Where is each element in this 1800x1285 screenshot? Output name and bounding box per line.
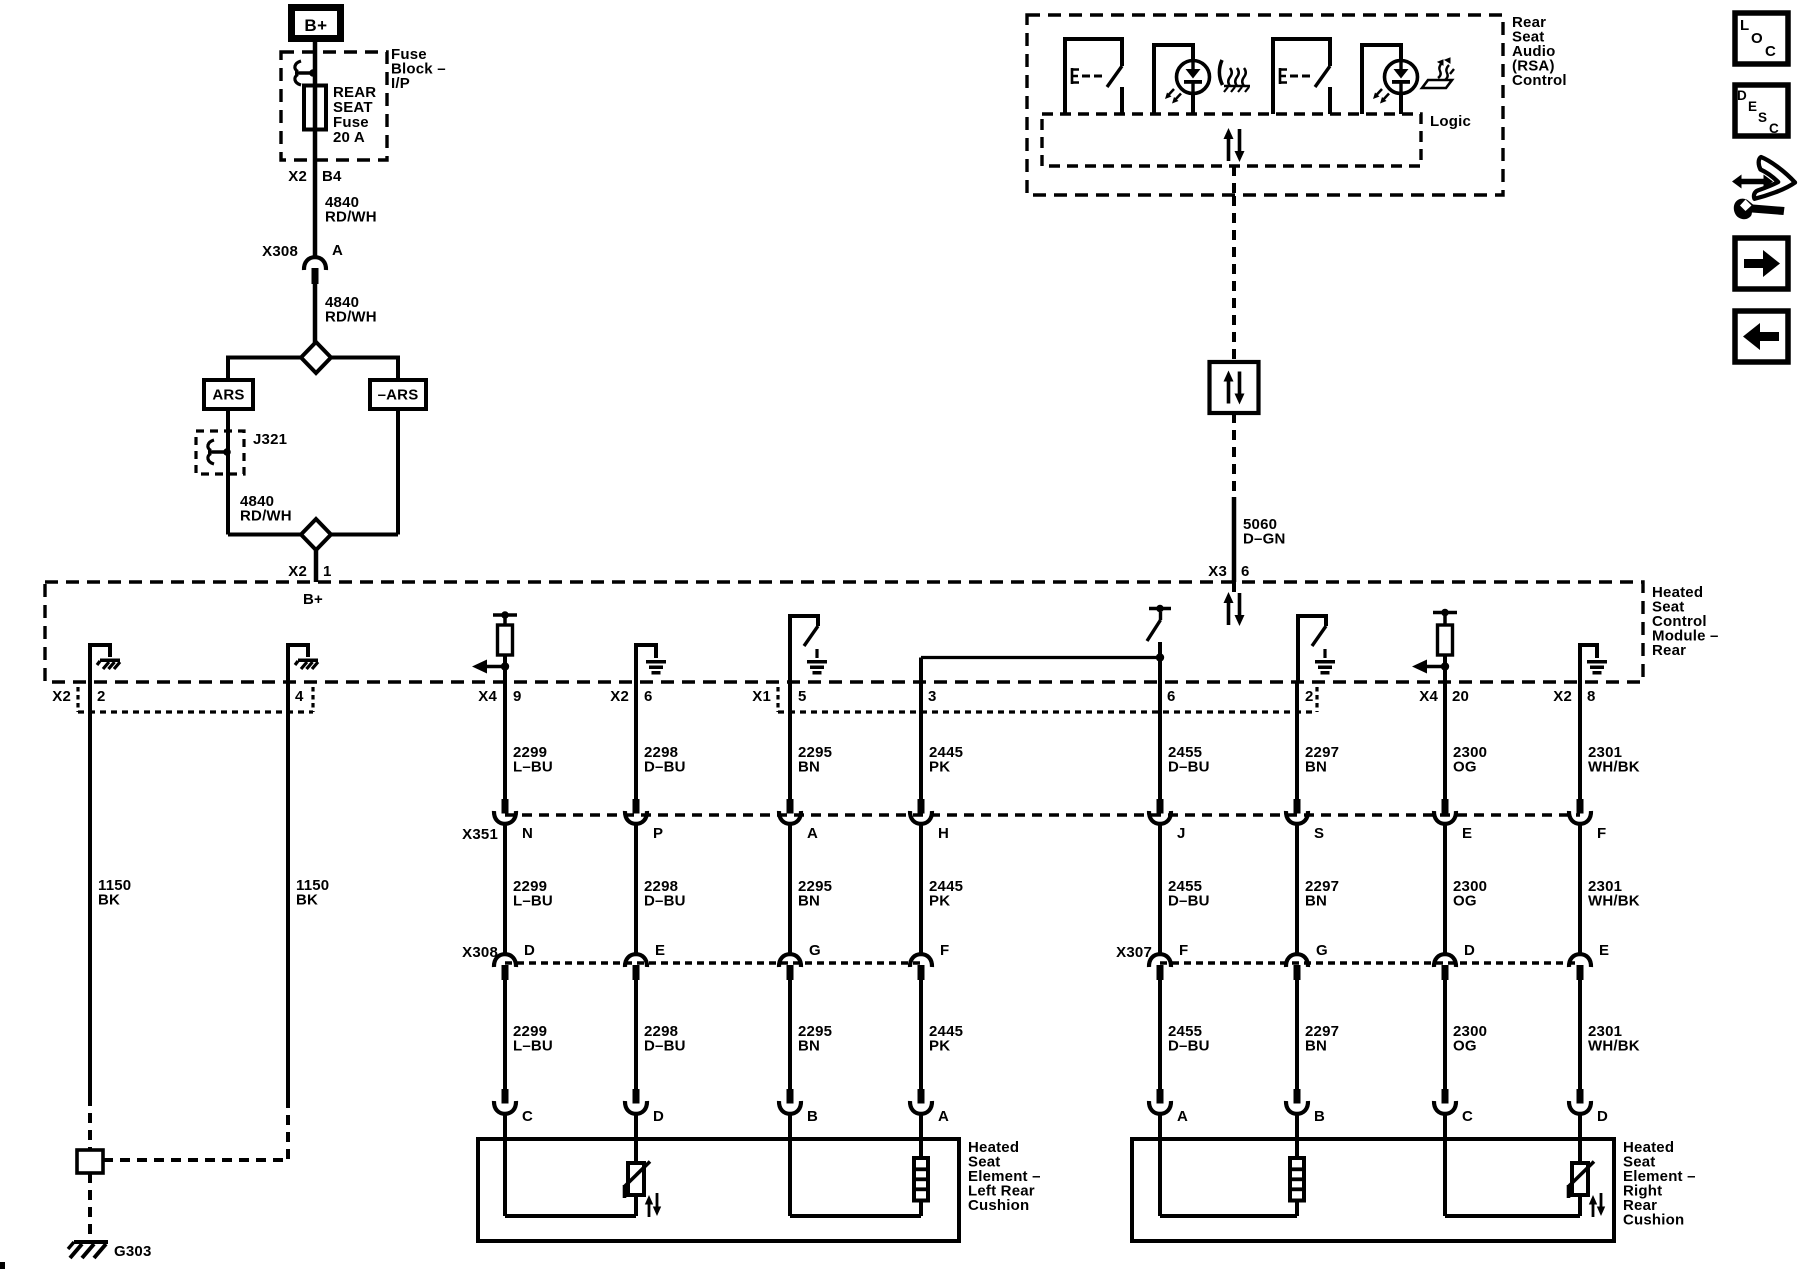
svg-text:D–BU: D–BU (1168, 1038, 1210, 1055)
svg-text:L–BU: L–BU (513, 1038, 553, 1055)
svg-text:X2: X2 (288, 563, 307, 580)
module switch at pin 6 (1156, 653, 1164, 661)
wire: B+ to fuse (313, 42, 318, 87)
svg-text:C: C (522, 1108, 533, 1125)
svg-text:RD/WH: RD/WH (240, 508, 292, 525)
svg-text:ARS: ARS (212, 387, 244, 404)
svg-text:BN: BN (1305, 1038, 1327, 1055)
wire 2297 BN module to X351 (right cushion ctl) (1295, 682, 1299, 801)
dashed data wire to module (1232, 413, 1236, 497)
svg-text:PK: PK (929, 1038, 950, 1055)
module ground output pin X2-4 (288, 645, 308, 682)
wire 2301 WH/BK to seat element (1578, 980, 1582, 1091)
svg-text:X307: X307 (1116, 944, 1152, 961)
svg-text:X308: X308 (262, 243, 298, 260)
module serial data up/down arrows at X3-6 (1232, 582, 1236, 592)
seat element connector pin A (910, 1089, 932, 1114)
splice J321 dashed box (196, 431, 244, 474)
svg-text:4: 4 (295, 688, 304, 705)
svg-text:L–BU: L–BU (513, 893, 553, 910)
svg-text:E: E (1599, 942, 1609, 959)
right cushion thermistor (1569, 1162, 1606, 1218)
svg-text:D: D (1737, 88, 1747, 103)
svg-text:J321: J321 (253, 431, 287, 448)
left cushion thermistor (625, 1162, 662, 1218)
J321 splice clip (208, 440, 231, 464)
svg-text:E: E (1748, 99, 1757, 114)
svg-text:X2: X2 (610, 688, 629, 705)
svg-text:D–BU: D–BU (644, 893, 686, 910)
wire into element box (503, 1115, 507, 1141)
svg-text:6: 6 (1241, 563, 1250, 580)
Rear Seat Audio (RSA) Control dashed box (1027, 15, 1503, 195)
connector X351 pin A (779, 799, 801, 824)
svg-text:D–BU: D–BU (644, 759, 686, 776)
svg-text:F: F (1179, 942, 1188, 959)
svg-text:X2: X2 (1553, 688, 1572, 705)
RSA logic up/down arrows (1224, 128, 1245, 162)
svg-text:OG: OG (1453, 893, 1477, 910)
wire into element box (634, 1115, 638, 1141)
wire 2299 L&#8211;BU to seat element (503, 980, 507, 1091)
svg-text:C: C (1765, 43, 1776, 60)
svg-text:BK: BK (98, 892, 120, 909)
wire 2297 BN to seat element (1295, 980, 1299, 1091)
wire: to module pin X2-1 (314, 550, 319, 582)
fuse REAR SEAT 20A (304, 86, 326, 130)
svg-text:H: H (938, 825, 949, 842)
svg-text:2: 2 (97, 688, 106, 705)
svg-text:D: D (653, 1108, 664, 1125)
svg-text:BN: BN (798, 759, 820, 776)
wire 2300 OG X351 to X308/X307 (1443, 825, 1447, 953)
svg-text:Rear: Rear (1652, 642, 1686, 659)
svg-text:OG: OG (1453, 759, 1477, 776)
module driver resistor at X4-20 (1433, 611, 1457, 615)
svg-text:A: A (938, 1108, 949, 1125)
page edge artifact (0, 1262, 5, 1269)
ground wire 1150 BK (pin 2) (88, 682, 92, 1096)
svg-text:N: N (522, 825, 533, 842)
wire 2295 BN X351 to X308/X307 (788, 825, 792, 953)
wire 2301 WH/BK X351 to X308/X307 (1578, 825, 1582, 953)
module switch with ground at pin 2 (1298, 616, 1326, 682)
wire 2298 D&#8211;BU X351 to X308/X307 (634, 825, 638, 953)
Heated Seat Control Module - Rear dashed box (45, 582, 1643, 682)
wire: bottom branch to diamond (228, 533, 301, 537)
cooled seat icon (1422, 58, 1454, 88)
svg-text:5: 5 (798, 688, 807, 705)
splice diamond S1 (301, 342, 331, 373)
svg-text:6: 6 (644, 688, 653, 705)
ground wire 1150 BK (pin 4) (286, 682, 290, 1098)
svg-text:PK: PK (929, 759, 950, 776)
svg-text:S: S (1314, 825, 1324, 842)
right cushion heater element (1290, 1158, 1304, 1201)
svg-text:X4: X4 (1419, 688, 1438, 705)
icon wiring/repair (arrow and wrench) (1732, 157, 1795, 219)
svg-text:D–GN: D–GN (1243, 531, 1285, 548)
module low switch at X1-5 (790, 616, 818, 682)
wire into element box (1158, 1115, 1162, 1141)
wire 2301 WH/BK module to X351 (right cushion -) (1578, 682, 1582, 801)
connector X351 pin P (625, 799, 647, 824)
splice diamond S2 (301, 519, 331, 550)
svg-text:PK: PK (929, 893, 950, 910)
svg-text:Cushion: Cushion (1623, 1212, 1684, 1229)
svg-text:–ARS: –ARS (378, 387, 419, 404)
wire 5060 D-GN (1232, 497, 1237, 582)
seat element connector pin D (1569, 1089, 1591, 1114)
svg-text:BN: BN (798, 893, 820, 910)
wire 2295 BN to seat element (788, 980, 792, 1091)
svg-text:X3: X3 (1208, 563, 1227, 580)
module ground at X2-8 (1580, 645, 1597, 682)
svg-text:D–BU: D–BU (1168, 893, 1210, 910)
svg-text:20 A: 20 A (333, 129, 365, 146)
connector X1 bracket (778, 710, 1317, 713)
svg-text:Logic: Logic (1430, 113, 1471, 130)
wire into element box (1295, 1115, 1299, 1141)
module sense wire pin 3 (919, 658, 923, 683)
seat element connector pin A (1149, 1089, 1171, 1114)
svg-text:2: 2 (1305, 688, 1314, 705)
svg-text:G: G (809, 942, 821, 959)
wire: diamond to ARS (228, 356, 301, 360)
module ground output pin X2-2 (90, 645, 110, 682)
svg-text:G: G (1316, 942, 1328, 959)
wire into element box (1578, 1115, 1582, 1141)
connector X351 pin F (1569, 799, 1591, 824)
icon back arrow box (1735, 311, 1788, 362)
connector row X351 dashed line (505, 813, 1580, 817)
icon DESC box (1735, 85, 1788, 136)
svg-text:D–BU: D–BU (1168, 759, 1210, 776)
svg-text:E: E (1462, 825, 1472, 842)
connector X351 pin E (1434, 799, 1456, 824)
svg-text:X308: X308 (462, 944, 498, 961)
wire 2295 BN module to X351 (left cushion sense) (788, 682, 792, 801)
connector X351 pin J (1149, 799, 1171, 824)
svg-text:OG: OG (1453, 1038, 1477, 1055)
wire into element box (1443, 1115, 1447, 1141)
svg-text:S: S (1758, 110, 1767, 125)
svg-text:RD/WH: RD/WH (325, 309, 377, 326)
wire: ARS down (226, 409, 230, 535)
dashed data wire from RSA (1232, 166, 1236, 196)
svg-text:C: C (1462, 1108, 1473, 1125)
wire 2445 PK to seat element (919, 980, 923, 1091)
wire 2455 D&#8211;BU module to X351 (right cushion +) (1158, 682, 1162, 801)
svg-text:X4: X4 (478, 688, 497, 705)
wire 2298 D&#8211;BU to seat element (634, 980, 638, 1091)
wire 2298 D&#8211;BU module to X351 (left cushion ctl) (634, 682, 638, 801)
RSA switch SW1 (heat) (1065, 39, 1122, 114)
wire 2300 OG to seat element (1443, 980, 1447, 1091)
serial data symbol box (1210, 362, 1259, 413)
RSA switch SW2 (cool) (1273, 39, 1330, 114)
svg-text:B+: B+ (304, 16, 327, 35)
icon LOC box (1735, 13, 1788, 64)
RSA indicator LED1 (1154, 45, 1210, 114)
svg-text:A: A (1177, 1108, 1188, 1125)
Fuse Block - I/P dashed box (281, 52, 387, 160)
svg-text:C: C (1769, 121, 1779, 136)
svg-text:X2: X2 (288, 168, 307, 185)
wire to splice diamond (313, 283, 318, 344)
wire: diamond to -ARS (331, 356, 398, 360)
seat element connector pin B (779, 1089, 801, 1114)
svg-text:D: D (1597, 1108, 1608, 1125)
wire 2445 PK module to X351 (left cushion -) (919, 682, 923, 801)
svg-text:O: O (1751, 30, 1763, 47)
svg-text:20: 20 (1452, 688, 1469, 705)
svg-text:Cushion: Cushion (968, 1197, 1029, 1214)
svg-text:BN: BN (1305, 893, 1327, 910)
left element internal wires (503, 1141, 507, 1216)
connector X2 bracket (78, 710, 313, 713)
wire 2455 D&#8211;BU to seat element (1158, 980, 1162, 1091)
connector row X308 dashed line (505, 961, 921, 965)
svg-text:L: L (1740, 17, 1749, 34)
Heated Seat Element - Right Rear Cushion box (1132, 1139, 1614, 1241)
switch -ARS box (370, 380, 426, 409)
icon forward arrow box (1735, 238, 1788, 289)
seat element connector pin C (1434, 1089, 1456, 1114)
svg-text:B: B (807, 1108, 818, 1125)
wire 2445 PK X351 to X308/X307 (919, 825, 923, 953)
svg-text:8: 8 (1587, 688, 1596, 705)
connector X351 pin S (1286, 799, 1308, 824)
svg-text:A: A (807, 825, 818, 842)
svg-text:B4: B4 (322, 168, 342, 185)
svg-text:P: P (653, 825, 663, 842)
wire 2300 OG module to X351 (right cushion sense) (1443, 682, 1447, 801)
svg-text:6: 6 (1167, 688, 1176, 705)
wire 2297 BN X351 to X308/X307 (1295, 825, 1299, 953)
svg-text:BN: BN (798, 1038, 820, 1055)
left cushion heater element (914, 1158, 928, 1201)
ground G303 (68, 1242, 108, 1258)
Heated Seat Element - Left Rear Cushion box (478, 1139, 959, 1241)
svg-text:G303: G303 (114, 1243, 152, 1260)
seat element connector pin C (494, 1089, 516, 1114)
svg-text:WH/BK: WH/BK (1588, 759, 1640, 776)
svg-text:X1: X1 (752, 688, 771, 705)
svg-text:9: 9 (513, 688, 522, 705)
seat element connector pin B (1286, 1089, 1308, 1114)
connector X351 pin N (494, 799, 516, 824)
svg-text:X2: X2 (52, 688, 71, 705)
svg-text:WH/BK: WH/BK (1588, 893, 1640, 910)
svg-text:L–BU: L–BU (513, 759, 553, 776)
fuse clip terminal (295, 61, 317, 85)
svg-text:E: E (655, 942, 665, 959)
svg-text:A: A (332, 242, 343, 259)
svg-text:I/P: I/P (391, 75, 410, 92)
svg-text:WH/BK: WH/BK (1588, 1038, 1640, 1055)
connector X351 pin H (910, 799, 932, 824)
wire into element box (788, 1115, 792, 1141)
svg-text:J: J (1177, 825, 1186, 842)
svg-text:D–BU: D–BU (644, 1038, 686, 1055)
switch ARS box (204, 380, 253, 409)
feedback arrow (484, 665, 505, 669)
svg-text:X351: X351 (462, 826, 498, 843)
wire into element box (919, 1115, 923, 1141)
svg-text:F: F (940, 942, 949, 959)
heated seat icon (1219, 60, 1250, 92)
svg-text:B+: B+ (303, 591, 323, 608)
ground splice block (77, 1150, 103, 1173)
svg-text:Control: Control (1512, 72, 1567, 89)
battery B+ symbol (292, 8, 341, 39)
svg-text:RD/WH: RD/WH (325, 209, 377, 226)
wire 2299 L&#8211;BU X351 to X308/X307 (503, 825, 507, 953)
svg-text:D: D (524, 942, 535, 959)
wire: -ARS down (396, 409, 400, 535)
right element internal wires (1158, 1141, 1162, 1216)
RSA indicator LED2 (1362, 45, 1418, 114)
wire 2299 L&#8211;BU module to X351 (left cushion +) (503, 682, 507, 801)
svg-text:3: 3 (928, 688, 937, 705)
seat element connector pin D (625, 1089, 647, 1114)
wire 2455 D&#8211;BU X351 to X308/X307 (1158, 825, 1162, 953)
svg-text:F: F (1597, 825, 1606, 842)
svg-text:BK: BK (296, 892, 318, 909)
svg-text:D: D (1464, 942, 1475, 959)
svg-text:BN: BN (1305, 759, 1327, 776)
module ground at X2-6 (636, 645, 656, 682)
module driver resistor at X4-9 (493, 613, 517, 617)
svg-text:B: B (1314, 1108, 1325, 1125)
feedback arrow (1424, 665, 1445, 669)
dashed ground distribution (88, 1096, 92, 1150)
RSA logic dashed box (1042, 114, 1421, 166)
svg-text:1: 1 (323, 563, 332, 580)
